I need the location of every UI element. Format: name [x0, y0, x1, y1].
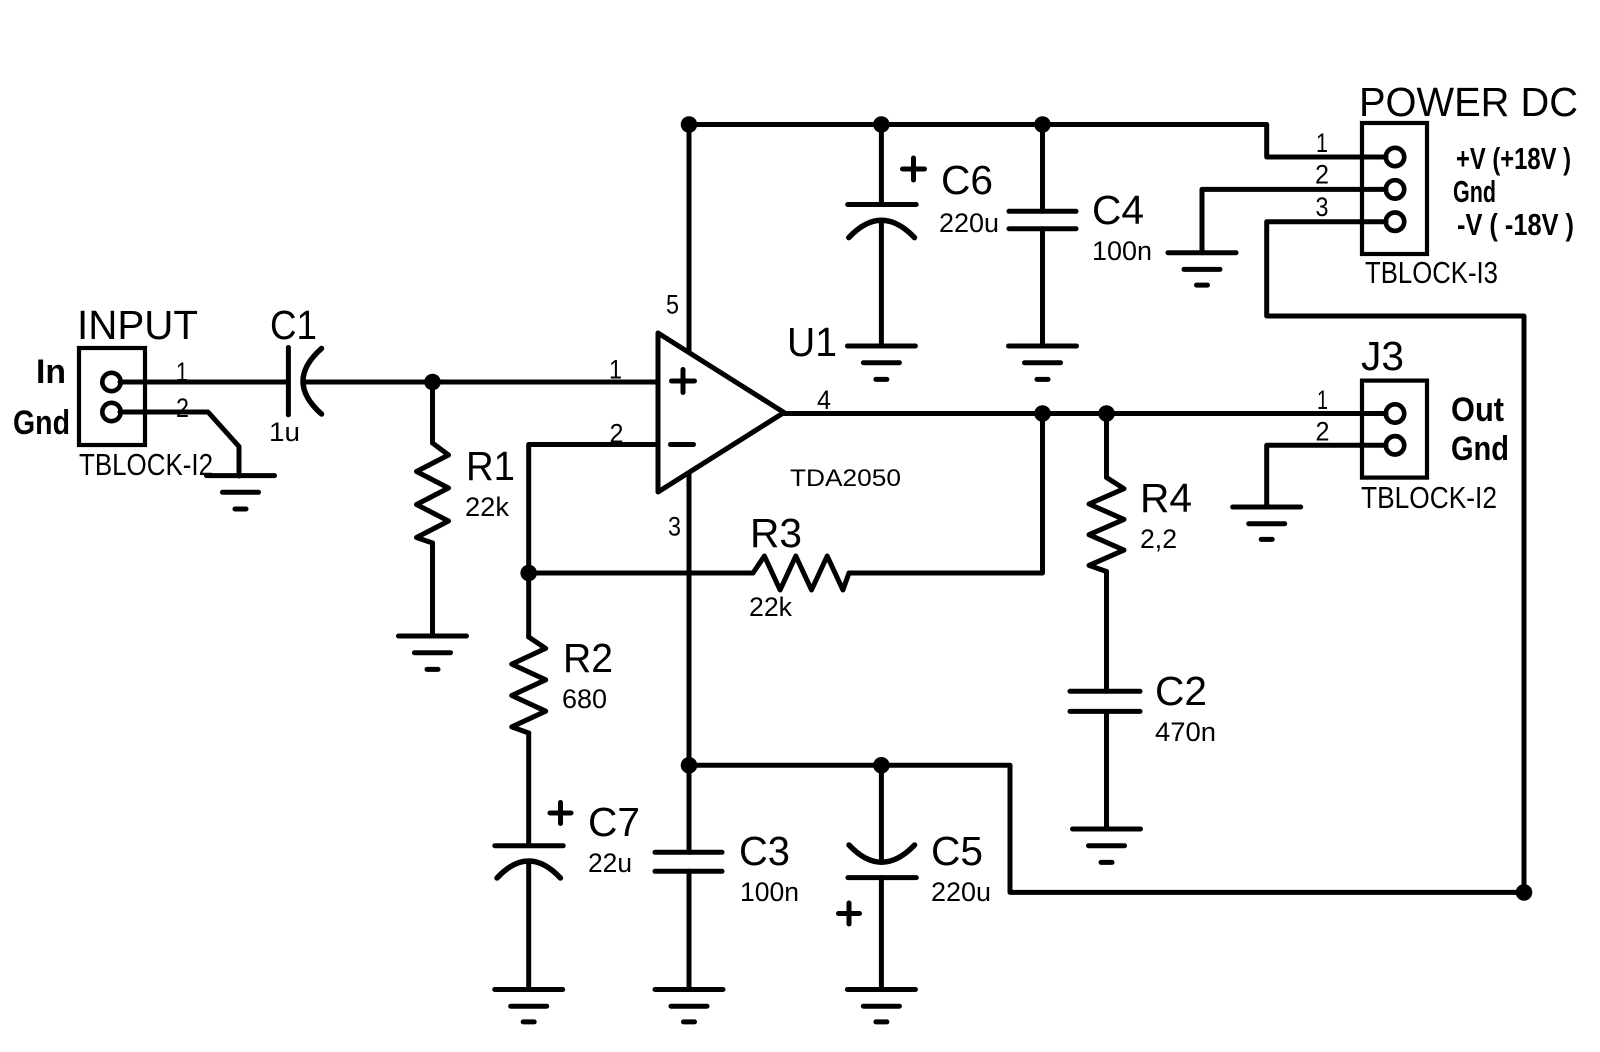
wire C4 to ground [1040, 229, 1045, 346]
svg-text:C5: C5 [931, 828, 983, 874]
capacitor C4 (100n) [1009, 211, 1076, 228]
svg-text:C6: C6 [941, 157, 993, 203]
wire C4 top [1040, 125, 1045, 212]
svg-text:220u: 220u [931, 877, 991, 907]
ground POWER DC pin2 [1168, 253, 1236, 285]
terminal block J3 TBLOCK-I2 [1362, 381, 1427, 478]
op-amp U1 triangle [658, 333, 784, 492]
ground C6 [847, 346, 915, 379]
wire +V top rail [689, 125, 1386, 158]
wire J3 pin stubs [1360, 414, 1386, 446]
node pin5 junction [681, 116, 698, 133]
svg-text:J3: J3 [1361, 333, 1404, 379]
wire input pin stubs [120, 382, 147, 412]
svg-text:2: 2 [1316, 417, 1330, 447]
node A junction input/R1 [424, 374, 441, 391]
capacitor C1 (1u) [288, 348, 321, 415]
node B junction R2/R3 [520, 565, 537, 582]
svg-text:C1: C1 [270, 302, 317, 348]
svg-text:TBLOCK-I2: TBLOCK-I2 [79, 447, 213, 482]
svg-text:22k: 22k [465, 492, 510, 522]
wire op-amp pin3 to -V node [687, 472, 692, 765]
wire C1 to op-amp pin1 [304, 380, 658, 385]
wire C5 top [879, 765, 884, 862]
node output/R4 [1098, 405, 1115, 422]
svg-text:2: 2 [610, 419, 624, 449]
svg-text:INPUT: INPUT [77, 302, 198, 348]
wire R2 top [526, 573, 531, 637]
wire C2 to ground [1104, 711, 1109, 829]
wire C3 to ground [687, 871, 692, 989]
capacitor C7 (22u polarized) [495, 803, 571, 879]
svg-text:2: 2 [176, 393, 189, 423]
capacitor C2 (470n) [1070, 691, 1140, 711]
svg-text:R1: R1 [466, 443, 515, 489]
ground C4 [1009, 346, 1077, 379]
wire R1 top [430, 382, 435, 443]
node C5 junction [873, 757, 890, 774]
svg-text:-V ( -18V ): -V ( -18V ) [1457, 208, 1574, 242]
svg-text:Gnd: Gnd [1451, 430, 1509, 468]
wire R4 to C2 [1104, 572, 1109, 692]
resistor R2 [512, 637, 546, 733]
node -V corner junction [1516, 884, 1533, 901]
capacitor C3 (100n) [655, 852, 722, 871]
wire C5 to ground [879, 878, 884, 990]
capacitor C6 (220u polarized) [848, 158, 925, 238]
wire R4 top [1104, 414, 1109, 478]
svg-text:In: In [36, 353, 66, 391]
wire R3 to output node [849, 414, 1043, 574]
wire input pin1 to C1 [120, 380, 286, 385]
svg-text:680: 680 [562, 684, 607, 714]
svg-text:3: 3 [1316, 192, 1329, 222]
wire J3 pin2 to ground [1267, 445, 1386, 507]
svg-text:C2: C2 [1155, 668, 1207, 714]
svg-text:100n: 100n [740, 877, 799, 907]
svg-text:1: 1 [1317, 385, 1328, 415]
svg-text:R4: R4 [1140, 475, 1192, 521]
wire node B to R3 [529, 571, 753, 576]
node pin3/C3 [681, 757, 698, 774]
ground C7 [495, 990, 563, 1022]
node output/R3 [1034, 405, 1051, 422]
svg-text:Gnd: Gnd [1453, 175, 1496, 209]
svg-text:3: 3 [668, 512, 681, 542]
wire op-amp pin2 inverting input [529, 445, 658, 574]
resistor R3 [753, 556, 849, 590]
terminal block INPUT TBLOCK-I2 [79, 348, 145, 445]
svg-text:1: 1 [1316, 128, 1328, 158]
svg-text:POWER DC: POWER DC [1359, 79, 1578, 125]
svg-text:TBLOCK-I3: TBLOCK-I3 [1365, 255, 1498, 290]
ground C3 [655, 990, 723, 1022]
ground J3 pin2 [1233, 507, 1301, 539]
wire C7 to ground [526, 861, 531, 990]
capacitor C5 (220u polarized) [839, 845, 917, 924]
wire -V line to C5 and right [689, 765, 1524, 892]
wire POWER DC pin3 -V rail [1267, 222, 1524, 893]
ground C5 [847, 990, 915, 1022]
svg-text:1u: 1u [269, 417, 300, 447]
svg-text:TDA2050: TDA2050 [790, 465, 901, 492]
wire C3 top [687, 765, 692, 852]
svg-text:2: 2 [1315, 160, 1329, 190]
svg-text:R2: R2 [563, 635, 613, 681]
svg-text:470n: 470n [1155, 717, 1216, 747]
node C6 junction [873, 116, 890, 133]
wire C6 top [879, 125, 884, 205]
svg-text:2,2: 2,2 [1140, 524, 1177, 554]
resistor R4 [1089, 478, 1124, 572]
svg-text:1: 1 [176, 357, 188, 387]
svg-text:22u: 22u [588, 848, 632, 878]
svg-text:5: 5 [666, 290, 679, 320]
svg-text:22k: 22k [749, 592, 793, 622]
resistor R1 [417, 443, 449, 543]
wire POWER DC pin2 to ground [1202, 189, 1386, 252]
svg-text:Out: Out [1451, 391, 1504, 429]
wire op-amp pin5 to +V rail [687, 125, 692, 354]
svg-text:C4: C4 [1092, 187, 1144, 233]
op-amp minus marker [671, 442, 694, 447]
svg-text:R3: R3 [750, 510, 802, 556]
ground R1 [399, 636, 467, 669]
svg-text:+V (+18V ): +V (+18V ) [1456, 142, 1571, 176]
ground input [207, 476, 275, 509]
wire op-amp output pin4 to J3 [784, 411, 1386, 416]
wire POWER DC pin stubs [1360, 157, 1386, 222]
svg-text:C3: C3 [739, 828, 790, 874]
wire R1 bottom [430, 543, 435, 636]
svg-text:TBLOCK-I2: TBLOCK-I2 [1361, 480, 1497, 515]
svg-text:100n: 100n [1092, 236, 1152, 266]
node C4 junction [1034, 116, 1051, 133]
svg-text:4: 4 [817, 385, 831, 415]
svg-text:Gnd: Gnd [13, 404, 70, 442]
svg-text:220u: 220u [939, 208, 999, 238]
wire input pin2 to ground [120, 412, 239, 476]
svg-text:U1: U1 [787, 319, 837, 365]
wire R2 to C7 [526, 733, 531, 845]
ground C2 [1073, 829, 1141, 862]
op-amp plus marker [672, 370, 695, 393]
terminal block POWER DC TBLOCK-I3 [1362, 123, 1427, 254]
svg-text:C7: C7 [588, 799, 640, 845]
svg-text:1: 1 [609, 355, 622, 385]
wire C6 to ground [879, 220, 884, 346]
